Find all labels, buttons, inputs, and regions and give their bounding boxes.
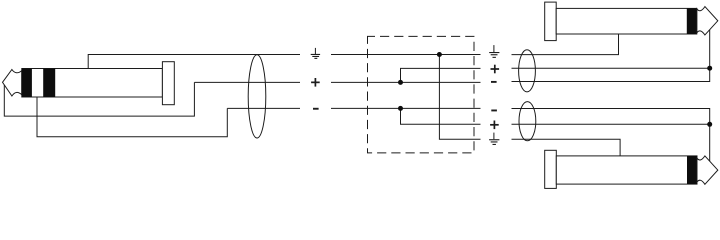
- junction dot at J3 tip feed: [707, 122, 712, 127]
- TRS plug J1 tip: [3, 70, 22, 97]
- plus symbol bottom-right: [490, 121, 499, 130]
- junction dot at J2 tip feed: [707, 66, 712, 71]
- ground symbol left: [311, 48, 320, 59]
- wire ground bottom-right to sleeve of J3: [512, 139, 621, 156]
- cable ellipse top-right: [519, 50, 536, 92]
- wire plus top-right: [512, 67, 710, 69]
- TS plug J3 insulator ring: [687, 156, 697, 184]
- TRS plug J1 insulator ring 2: [43, 69, 55, 98]
- wire plus line left: [194, 81, 300, 83]
- TS plug J2 body: [556, 8, 697, 34]
- ground symbol bottom-right: [489, 133, 499, 145]
- minus symbol top-right: [491, 81, 497, 83]
- TS plug J2 collar: [545, 2, 557, 41]
- minus symbol left: [313, 108, 319, 110]
- TS plug J2 tip: [697, 7, 718, 35]
- TS plug J3 collar: [545, 150, 557, 188]
- TS plug J2 insulator ring: [687, 8, 697, 34]
- wire sleeve-to-ground: [88, 55, 300, 69]
- wire tip-to-plus: vertical from tip: [4, 82, 194, 116]
- wire ground top-right to sleeve of J2: [512, 34, 619, 55]
- TRS plug J1 insulator ring 1: [22, 69, 32, 98]
- TS plug J3 tip: [697, 156, 718, 184]
- minus symbol bottom-right: [491, 110, 497, 112]
- cable ellipse left: [248, 55, 266, 138]
- wire ground through box: [331, 54, 481, 56]
- wire plus through box: [331, 81, 481, 83]
- wire ground branch down to bottom ground: [439, 55, 480, 140]
- junction dot ground: [437, 52, 442, 57]
- junction dot minus: [398, 106, 403, 111]
- wire minus branch down to bottom +: [401, 108, 481, 124]
- ground symbol top-right: [489, 45, 499, 58]
- wire minus top-right, rises to tip of J2: [512, 30, 710, 82]
- wire minus bottom-right, drops to tip of J3: [512, 109, 710, 162]
- TRS plug J1 collar: [162, 62, 174, 105]
- wire minus line left: [227, 107, 300, 109]
- plus symbol top-right: [491, 65, 500, 74]
- junction box (dashed): [368, 36, 475, 152]
- cable ellipse bottom-right: [519, 102, 536, 141]
- wire plus branch up to top +: [401, 68, 481, 82]
- wire minus through box: [331, 107, 481, 109]
- wire ring-to-minus: [37, 97, 227, 137]
- TRS plug J1 body outline: [22, 69, 163, 98]
- TS plug J3 body: [556, 156, 697, 184]
- wire plus bottom-right: [512, 123, 710, 125]
- plus symbol left: [311, 78, 320, 87]
- junction dot plus: [398, 80, 403, 85]
